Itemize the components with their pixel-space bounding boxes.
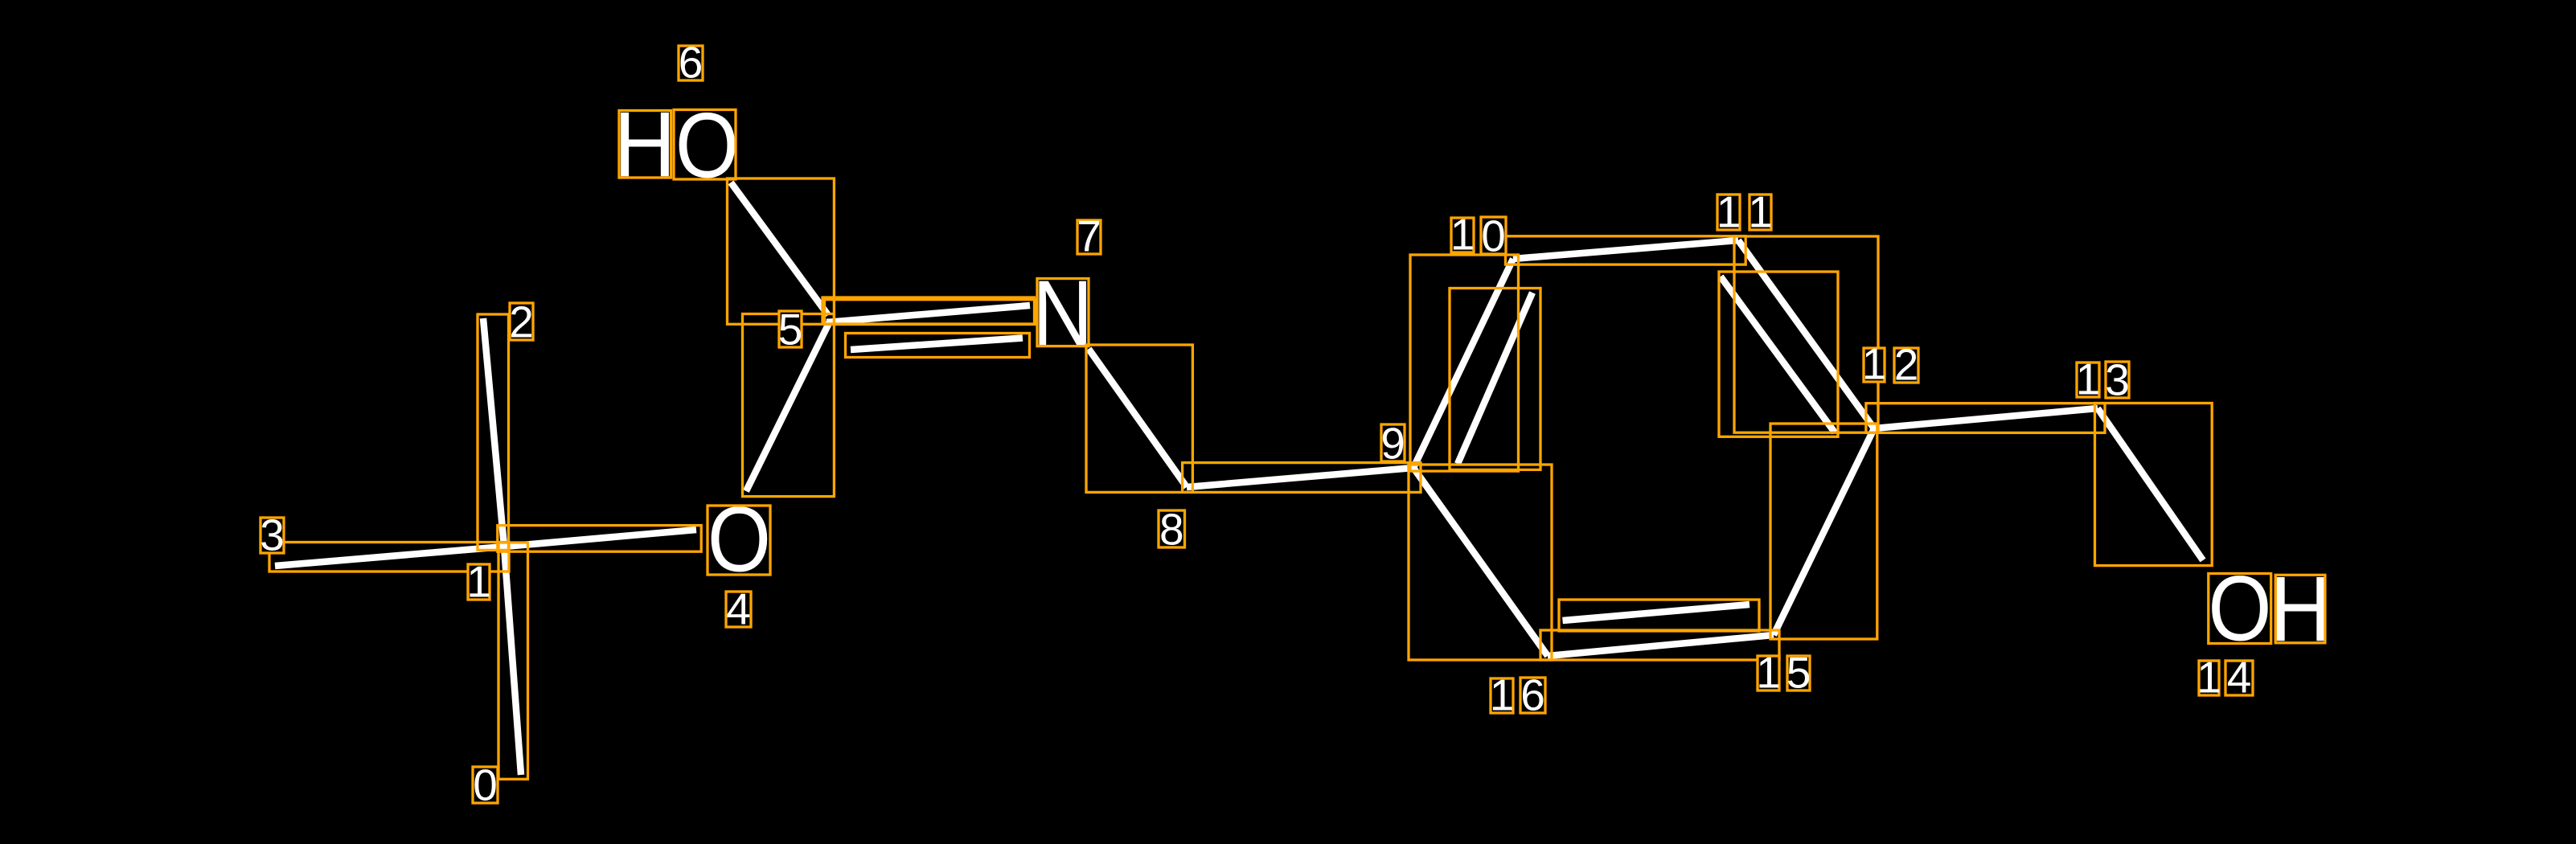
tag 11 digit 1 bbox=[1717, 187, 1741, 237]
box bond C9=C10 main bbox=[1410, 255, 1519, 471]
box bond C1-C0 bbox=[498, 543, 528, 779]
label H of OH (atom 14) bbox=[2270, 556, 2332, 660]
tag 12 digit 2 bbox=[1894, 340, 1919, 390]
svg-text:6: 6 bbox=[679, 38, 703, 88]
svg-text:H: H bbox=[613, 92, 675, 195]
tag 12 digit 1 bbox=[1862, 339, 1887, 389]
bond C5=N7 inner bbox=[851, 338, 1023, 350]
bond C15=C16 main bbox=[1548, 635, 1774, 656]
svg-text:7: 7 bbox=[1077, 211, 1101, 261]
tag 4 (atom 4) bbox=[726, 584, 751, 634]
bond N7-C8 bbox=[1089, 349, 1187, 487]
svg-text:1: 1 bbox=[2076, 354, 2101, 404]
svg-text:1: 1 bbox=[2197, 653, 2221, 703]
svg-text:1: 1 bbox=[1717, 187, 1741, 237]
bond C11=C12 inner bbox=[1721, 277, 1835, 432]
bond C15=C16 inner bbox=[1563, 604, 1750, 621]
tag 14 digit 1 bbox=[2197, 653, 2221, 703]
svg-text:1: 1 bbox=[1756, 648, 1781, 698]
svg-text:1: 1 bbox=[1862, 339, 1887, 389]
svg-text:H: H bbox=[2270, 556, 2332, 660]
tag 11 digit 1b bbox=[1748, 187, 1773, 237]
box bond C15=C16 main bbox=[1540, 630, 1779, 660]
tag 5 (atom 5) bbox=[778, 305, 803, 354]
tag 13 digit 1 bbox=[2076, 354, 2101, 404]
svg-text:9: 9 bbox=[1380, 419, 1405, 469]
label N (atom 7) bbox=[1032, 261, 1093, 365]
box bond C5=N7 main b bbox=[825, 300, 1037, 325]
svg-text:1: 1 bbox=[1450, 210, 1475, 260]
tag 10 digit 0 bbox=[1481, 211, 1506, 261]
box bond C12-C15 bbox=[1770, 424, 1877, 639]
svg-text:6: 6 bbox=[1520, 670, 1545, 720]
svg-text:3: 3 bbox=[2105, 355, 2130, 405]
bond C16-C9 bbox=[1413, 468, 1548, 656]
tag 10 digit 1 bbox=[1450, 210, 1475, 260]
tag 15 digit 1 bbox=[1756, 648, 1781, 698]
bond C9=C10 main bbox=[1413, 259, 1513, 468]
svg-text:0: 0 bbox=[1481, 211, 1506, 261]
svg-text:O: O bbox=[708, 489, 771, 592]
box bond C12-C13 bbox=[1866, 404, 2105, 433]
bond C12-C15 bbox=[1774, 428, 1874, 635]
bond C1-C2 bbox=[483, 318, 504, 547]
box bond C1-O4 bbox=[498, 526, 701, 552]
box H of OH bbox=[2275, 575, 2325, 643]
tag 14 digit 4 bbox=[2225, 653, 2253, 703]
svg-text:4: 4 bbox=[2227, 653, 2252, 703]
svg-text:2: 2 bbox=[509, 297, 534, 347]
box bond C5=N7 inner bbox=[846, 334, 1030, 358]
label H of HO (atom 6) bbox=[613, 92, 675, 195]
tag 0 (atom 0) bbox=[473, 760, 498, 810]
box N atom 7 bbox=[1037, 279, 1089, 346]
svg-text:4: 4 bbox=[726, 584, 751, 634]
tag 8 (atom 8) bbox=[1159, 505, 1185, 555]
box O atom 4 bbox=[708, 506, 770, 575]
tag 2 (atom 2) bbox=[509, 297, 534, 347]
svg-text:1: 1 bbox=[466, 557, 491, 607]
bond C5-O6 bbox=[731, 182, 828, 315]
box bond N7-C8 bbox=[1086, 345, 1192, 492]
bond C1-O4 bbox=[504, 530, 696, 547]
svg-text:N: N bbox=[1032, 261, 1093, 365]
bond C1-C0 bbox=[504, 547, 521, 775]
tag 3 (atom 3) bbox=[260, 510, 285, 560]
svg-text:2: 2 bbox=[1894, 340, 1919, 390]
box bond C9=C10 inner bbox=[1450, 289, 1540, 470]
box bond O4-C5 bbox=[743, 314, 835, 497]
box bond C10-C11 bbox=[1506, 236, 1746, 264]
tag 7 (atom 7) bbox=[1077, 211, 1101, 261]
box bond C16-C9 bbox=[1409, 465, 1552, 660]
box bond C5=N7 main bbox=[822, 297, 1035, 324]
box bond C15=C16 inner bbox=[1559, 600, 1759, 631]
bond C5=N7 main bbox=[827, 305, 1030, 322]
tag 16 digit 6 bbox=[1520, 670, 1545, 720]
bond C1-C3 bbox=[275, 547, 504, 566]
box bond C11=C12 inner bbox=[1719, 272, 1838, 436]
box bond C5-O6 bbox=[728, 178, 835, 324]
svg-text:0: 0 bbox=[473, 760, 498, 810]
box H of HO bbox=[619, 111, 671, 178]
bond O4-C5 bbox=[746, 320, 831, 491]
bond C12-C13 bbox=[1874, 408, 2098, 428]
tag 13 digit 3 bbox=[2105, 355, 2130, 405]
bond C8-C9 bbox=[1187, 468, 1413, 487]
tag 6 (atom 6) bbox=[679, 38, 703, 88]
svg-text:1: 1 bbox=[1748, 187, 1773, 237]
tag 9 (atom 9) bbox=[1380, 419, 1405, 469]
label O (atom 4) bbox=[708, 489, 771, 592]
tag 16 digit 1 bbox=[1490, 670, 1515, 720]
tag 1 (atom 1) bbox=[466, 557, 491, 607]
label O of HO (atom 6) bbox=[675, 95, 739, 198]
bond C10-C11 bbox=[1513, 240, 1738, 259]
box bond C1-C3 bbox=[269, 543, 509, 572]
box bond C1-C2 bbox=[478, 314, 509, 550]
box bond C13-O14 bbox=[2095, 404, 2213, 566]
svg-text:3: 3 bbox=[260, 510, 285, 560]
svg-text:1: 1 bbox=[1490, 670, 1515, 720]
svg-text:5: 5 bbox=[778, 305, 803, 354]
bond C9=C10 inner bbox=[1458, 293, 1532, 464]
box bond C8-C9 bbox=[1183, 463, 1421, 493]
svg-text:5: 5 bbox=[1786, 648, 1811, 698]
bond C11=C12 main bbox=[1738, 240, 1874, 428]
box O of OH bbox=[2209, 574, 2271, 644]
box O of HO bbox=[674, 110, 736, 180]
bond C13-O14 bbox=[2098, 408, 2203, 560]
box bond C11=C12 main bbox=[1734, 236, 1878, 432]
label O of OH (atom 14) bbox=[2208, 558, 2271, 661]
svg-text:8: 8 bbox=[1159, 505, 1184, 555]
tag 15 digit 5 bbox=[1786, 648, 1811, 698]
